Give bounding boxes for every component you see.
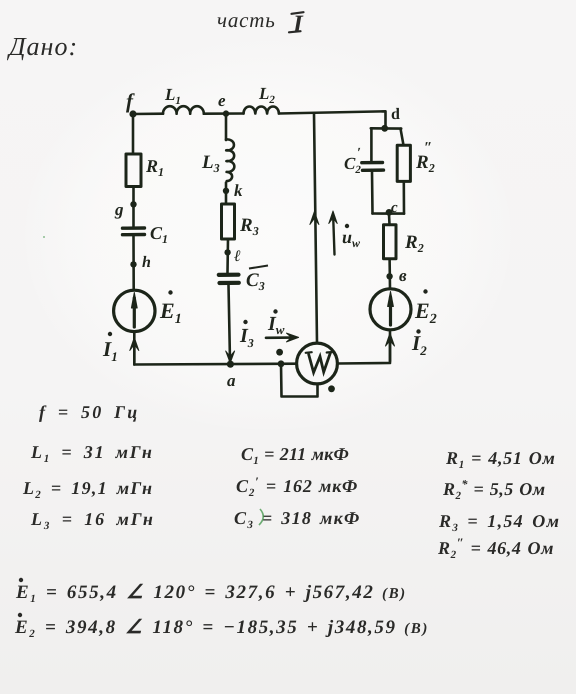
svg-text:L2 = 19,1 мГн: L2 = 19,1 мГн <box>22 478 153 501</box>
svg-text:g: g <box>114 200 124 219</box>
svg-text:c: c <box>391 200 398 216</box>
svg-text:h: h <box>142 254 151 271</box>
svg-text:E1 = 655,4 ∠ 120° = 327,6 + j5: E1 = 655,4 ∠ 120° = 327,6 + j567,42 (В) <box>15 582 407 605</box>
svg-text:a: a <box>227 371 236 390</box>
svg-text:e: e <box>218 91 226 110</box>
svg-text:′: ′ <box>357 146 361 161</box>
svg-text:k: k <box>234 181 243 200</box>
svg-text:C2′ = 162 мкФ: C2′ = 162 мкФ <box>236 474 358 499</box>
svg-text:″: ″ <box>424 140 432 156</box>
svg-text:d: d <box>391 106 400 123</box>
svg-text:часть: часть <box>217 8 276 32</box>
svg-text:E2 = 394,8 ∠ 118° = −185,35 +: E2 = 394,8 ∠ 118° = −185,35 + j348,59 (В… <box>14 617 429 640</box>
svg-text:f = 50 Гц: f = 50 Гц <box>39 402 139 422</box>
svg-text:Дано:: Дано: <box>6 32 78 61</box>
svg-text:в: в <box>399 266 407 285</box>
svg-text:ℓ: ℓ <box>234 248 241 265</box>
svg-text:I: I <box>292 11 304 38</box>
